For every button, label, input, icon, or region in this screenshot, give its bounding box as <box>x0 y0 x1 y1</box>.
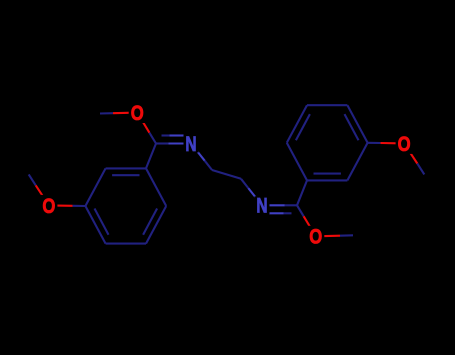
svg-text:N: N <box>185 133 196 156</box>
svg-text:N: N <box>256 195 267 218</box>
svg-text:O: O <box>131 102 144 125</box>
svg-text:O: O <box>309 226 322 249</box>
svg-text:O: O <box>398 133 411 156</box>
svg-text:O: O <box>42 195 55 218</box>
